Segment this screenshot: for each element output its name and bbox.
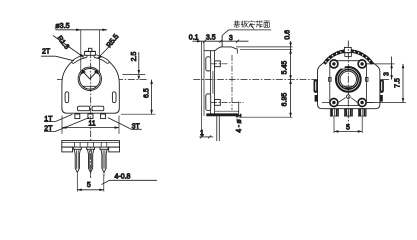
knurl arc slots bbox=[73, 56, 107, 62]
wheel vertical centerline bbox=[231, 55, 233, 110]
ring notch bbox=[341, 65, 344, 69]
extension line pin tips plane bbox=[201, 41, 203, 137]
label R1.3 bbox=[53, 35, 84, 58]
frame detail wires bbox=[322, 98, 374, 103]
shared horizontal centerline bbox=[57, 79, 391, 81]
svg-text:5: 5 bbox=[87, 182, 91, 189]
apex inner rect bbox=[345, 53, 352, 57]
edge slot left bbox=[314, 80, 318, 102]
dim 6.5 bbox=[121, 80, 156, 115]
locating pin bottom bbox=[215, 100, 221, 106]
bushing ring bbox=[336, 67, 361, 92]
dim 7.5 (right) bbox=[367, 64, 406, 103]
side slot left bbox=[65, 92, 69, 103]
terminal tab 1 bbox=[330, 109, 338, 116]
rivet bottom-right bbox=[358, 99, 366, 107]
cover frame bbox=[330, 61, 367, 106]
svg-text:1: 1 bbox=[200, 130, 204, 137]
dim ø3.5 bbox=[55, 21, 107, 73]
label 1T bbox=[44, 114, 72, 123]
mounting surface line bbox=[221, 36, 223, 47]
bottom flange solid bbox=[206, 113, 238, 116]
vertical centerline bbox=[90, 52, 92, 179]
svg-text:6.5: 6.5 bbox=[144, 88, 151, 98]
bottom window right bbox=[92, 106, 104, 111]
wheel slot chords bbox=[342, 86, 354, 88]
svg-text:3.5: 3.5 bbox=[206, 34, 216, 41]
terminal pin 3 bbox=[100, 142, 108, 176]
svg-text:2.5: 2.5 bbox=[131, 52, 138, 62]
bar end block right bbox=[109, 147, 120, 152]
svg-text:5: 5 bbox=[346, 124, 350, 131]
terminal stub 1 bbox=[75, 114, 80, 119]
label 2T lower bbox=[44, 118, 89, 133]
locating pin top bbox=[215, 61, 221, 67]
label 2T upper bbox=[41, 48, 74, 60]
dim 1 bbox=[199, 130, 213, 139]
dim 3 (right) bbox=[367, 57, 395, 80]
label R5.5 bbox=[98, 33, 121, 58]
knurl band bbox=[324, 51, 372, 64]
bar end block left bbox=[62, 147, 73, 152]
slot wedge right bbox=[94, 70, 100, 75]
terminal tab 3 bbox=[358, 109, 366, 116]
edge slot right bbox=[380, 80, 384, 102]
dim 2.5 bbox=[123, 52, 146, 80]
right dim chain 0.6 / 5.45 / 6.95 bbox=[236, 30, 293, 117]
side tab right bbox=[366, 77, 369, 81]
svg-text:6.95: 6.95 bbox=[282, 93, 289, 107]
slot V lines bbox=[82, 71, 97, 79]
terminal stub 3 bbox=[101, 114, 106, 119]
mounting surface label bbox=[222, 20, 271, 35]
svg-text:0.6: 0.6 bbox=[284, 30, 291, 40]
svg-text:ø3.5: ø3.5 bbox=[55, 21, 69, 30]
side lug bottom bbox=[206, 94, 211, 111]
svg-text:5.45: 5.45 bbox=[282, 61, 289, 75]
svg-text:3: 3 bbox=[383, 72, 390, 76]
bottom flange lines bbox=[215, 110, 239, 112]
svg-text:4-0.8: 4-0.8 bbox=[115, 173, 131, 180]
rivet top-left bbox=[330, 60, 338, 68]
side slot right bbox=[112, 92, 116, 103]
terminal stub 2 bbox=[88, 114, 93, 119]
front face line bbox=[203, 41, 205, 116]
side tab left bbox=[329, 77, 332, 81]
body outline bbox=[318, 50, 380, 109]
wheel chord seen in hole bbox=[83, 85, 97, 87]
bottom window left bbox=[78, 106, 90, 111]
apex tab bbox=[85, 48, 96, 55]
terminal pin 1 bbox=[73, 142, 81, 176]
rivet top-right bbox=[358, 60, 366, 68]
terminal pin side bbox=[217, 116, 220, 141]
rivet bottom-left bbox=[330, 99, 338, 107]
apex tab bbox=[344, 47, 351, 52]
shaft hole bbox=[340, 71, 356, 87]
dim 5 (pins) bbox=[77, 175, 104, 192]
center boss circles bbox=[78, 67, 101, 90]
body outline bbox=[62, 55, 119, 113]
wheel back face bottom bbox=[238, 102, 240, 115]
body outline side bbox=[204, 47, 237, 116]
wheel back face top bbox=[236, 49, 238, 54]
bottom center rivet bbox=[347, 95, 351, 99]
svg-text:7.5: 7.5 bbox=[394, 78, 401, 88]
label 4-0.8 bbox=[102, 173, 158, 184]
svg-text:R5.5: R5.5 bbox=[106, 33, 121, 49]
housing bar bbox=[62, 141, 120, 148]
slot wedge left bbox=[80, 70, 86, 75]
svg-text:2T: 2T bbox=[42, 48, 51, 55]
dim 5 (right bottom) bbox=[334, 117, 362, 133]
terminal tab 2 bbox=[345, 109, 353, 116]
side lug top bbox=[206, 57, 211, 71]
top dimension chain 0.1 / 3.5 / 3 bbox=[189, 34, 249, 42]
label 3T bbox=[108, 118, 142, 131]
dim 11 bbox=[62, 116, 119, 134]
svg-text:11: 11 bbox=[88, 120, 95, 127]
vertical centerline bbox=[347, 41, 349, 127]
terminal pin 2 bbox=[87, 142, 95, 176]
svg-text:4-ø1: 4-ø1 bbox=[236, 112, 243, 132]
